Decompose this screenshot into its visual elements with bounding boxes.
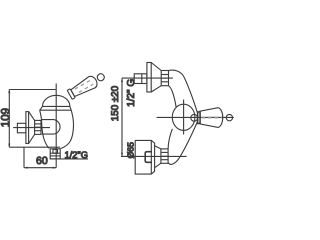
label 1/2"G left view	[50, 150, 88, 160]
S pipe bottom	[168, 122, 197, 165]
bottom union	[135, 140, 168, 174]
banded nipple	[35, 120, 41, 134]
outlet	[50, 149, 60, 159]
dim 150 +-20	[110, 78, 123, 156]
neck ring	[191, 114, 198, 121]
neck bar	[198, 112, 200, 124]
body ellipse	[172, 104, 195, 130]
body outline	[40, 110, 74, 148]
bottom union centerline	[121, 155, 187, 157]
handle cone right view	[200, 108, 223, 128]
cartridge U	[42, 120, 61, 135]
union center line	[13, 127, 50, 129]
collar	[40, 106, 71, 110]
svg-text:1/2" G: 1/2" G	[126, 79, 137, 107]
svg-text:1/2"G: 1/2"G	[65, 150, 88, 160]
top union	[134, 63, 168, 93]
dim 60	[24, 147, 56, 169]
dashes	[202, 117, 223, 119]
dim 109 line	[0, 90, 60, 148]
svg-text:109: 109	[0, 108, 12, 127]
svg-text:150 ±20: 150 ±20	[110, 85, 121, 121]
handle left view	[67, 70, 107, 100]
body crosshair	[183, 100, 185, 135]
center line faucet left	[55, 84, 57, 168]
svg-text:60: 60	[36, 155, 48, 167]
top union centerline	[122, 77, 173, 79]
S pipe top	[169, 70, 198, 113]
wall nut	[17, 123, 26, 133]
ball	[226, 114, 232, 120]
bell flange	[26, 112, 35, 144]
dome cap	[43, 95, 70, 106]
